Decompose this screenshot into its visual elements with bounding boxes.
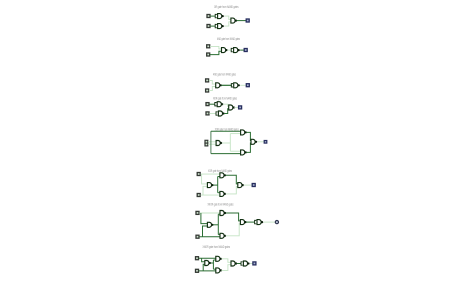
wire [210, 15, 215, 17]
svg-text:AND gate from NAND gates: AND gate from NAND gates [217, 37, 240, 41]
wire [230, 150, 240, 152]
wire [246, 221, 254, 223]
NAND gate U2 (inverter) [231, 48, 240, 53]
input pin B [206, 89, 209, 92]
wire [210, 46, 222, 49]
wire [221, 265, 231, 271]
NAND gate U3 [229, 105, 235, 110]
wire [246, 143, 251, 152]
input pin B [196, 235, 199, 238]
wire [227, 49, 232, 51]
input pin B [207, 25, 210, 28]
wire [202, 174, 208, 184]
NAND gate U4 [238, 183, 244, 188]
input pin B [205, 143, 208, 146]
NAND gate U5 (inverter) [255, 220, 264, 225]
wire [224, 109, 229, 114]
svg-text:XNOR gate from NAND gates: XNOR gate from NAND gates [208, 203, 234, 207]
NAND gate U2 [220, 173, 226, 178]
NAND gate U4 [251, 139, 257, 144]
NAND gate U2 [220, 211, 226, 216]
svg-text:OR gate from NAND gates: OR gate from NAND gates [214, 5, 239, 9]
wire [240, 49, 244, 51]
wire [211, 153, 241, 155]
wire [237, 263, 241, 265]
wire [240, 84, 246, 86]
wire [213, 224, 218, 226]
wire [243, 184, 252, 186]
wire [213, 259, 215, 261]
NAND gate U1 (inverter) [215, 14, 224, 19]
output pin Q [239, 106, 242, 109]
NAND gate U4 [231, 261, 237, 266]
wire [258, 141, 265, 143]
NAND gate U1 [216, 83, 222, 88]
svg-text:NOR gate from NAND gates: NOR gate from NAND gates [213, 96, 237, 100]
wire [209, 81, 216, 85]
NAND gate U1 [222, 48, 228, 53]
svg-text:AND gate from NAND gates: AND gate from NAND gates [213, 72, 236, 76]
input pin A [205, 140, 208, 143]
wire [210, 262, 213, 264]
wire [201, 173, 220, 175]
wire [213, 184, 218, 186]
input pin A [207, 15, 210, 18]
output pin Q [275, 221, 278, 224]
wire [230, 133, 240, 135]
NAND gate U3 [216, 268, 222, 273]
svg-text:XNOR gate from NAND gates: XNOR gate from NAND gates [203, 245, 231, 249]
NAND gate U2 [216, 256, 222, 261]
wire [221, 84, 232, 86]
output pin Q [264, 141, 267, 144]
NAND gate U1 (inverter) [215, 102, 224, 107]
input pin B [206, 112, 209, 115]
wire [218, 234, 220, 236]
wire [217, 214, 219, 234]
wire [218, 213, 220, 215]
wire [213, 268, 215, 270]
wire [202, 258, 205, 262]
output pin Q [246, 84, 249, 87]
NAND gate U2 (inverter) [231, 83, 240, 88]
NAND gate U3 [231, 18, 237, 23]
NAND gate U1 [205, 261, 211, 266]
wire [209, 87, 216, 91]
output pin Q [253, 262, 256, 265]
input pin A [206, 79, 209, 82]
wire [199, 270, 216, 272]
wire [199, 257, 216, 259]
NAND gate U4 [240, 220, 246, 225]
NAND gate U3 [241, 150, 247, 155]
wire [218, 192, 220, 194]
wire [210, 131, 212, 153]
input pin A [196, 211, 199, 214]
wire [224, 16, 231, 19]
output pin Q [246, 19, 249, 22]
wire [250, 263, 253, 265]
input pin B [196, 269, 199, 272]
wire [209, 113, 216, 115]
input pin A [206, 103, 209, 106]
NAND gate U1 [207, 222, 213, 227]
wire [264, 221, 276, 223]
wire [217, 177, 219, 193]
wire [218, 176, 220, 178]
wire [201, 213, 208, 224]
wire [210, 51, 222, 54]
wire [208, 141, 216, 143]
wire [208, 143, 216, 145]
wire [246, 132, 251, 140]
NAND gate U2 (inverter) [215, 24, 224, 29]
wire [237, 20, 247, 22]
wire [203, 264, 205, 271]
wire [223, 104, 229, 106]
NAND gate U1 [216, 141, 222, 146]
input pin A [197, 173, 200, 176]
wire [212, 260, 214, 269]
wire [203, 186, 207, 195]
input pin A [196, 257, 199, 260]
NAND gate U2 [241, 130, 247, 135]
NAND gate U3 [220, 233, 226, 238]
wire [221, 259, 231, 263]
NAND gate U3 [220, 191, 226, 196]
wire [226, 175, 238, 184]
output pin Q [252, 184, 255, 187]
wire [226, 186, 238, 194]
wire [226, 213, 241, 221]
wire [226, 223, 241, 236]
output pin Q [244, 49, 247, 52]
wire [201, 194, 220, 196]
NAND gate U1 [207, 183, 213, 188]
wire [199, 236, 220, 238]
wire [224, 22, 231, 26]
wire [229, 134, 231, 152]
wire [199, 212, 220, 214]
wire [210, 25, 215, 27]
NAND gate U2 (inverter) [216, 111, 225, 116]
input pin B [197, 194, 200, 197]
wire [209, 103, 214, 105]
wire [203, 226, 208, 237]
wire [211, 130, 241, 132]
input pin B [207, 53, 210, 56]
NAND gate U5 (inverter) [241, 261, 250, 266]
input pin A [207, 45, 210, 48]
wire [222, 142, 231, 144]
wire [234, 107, 238, 109]
